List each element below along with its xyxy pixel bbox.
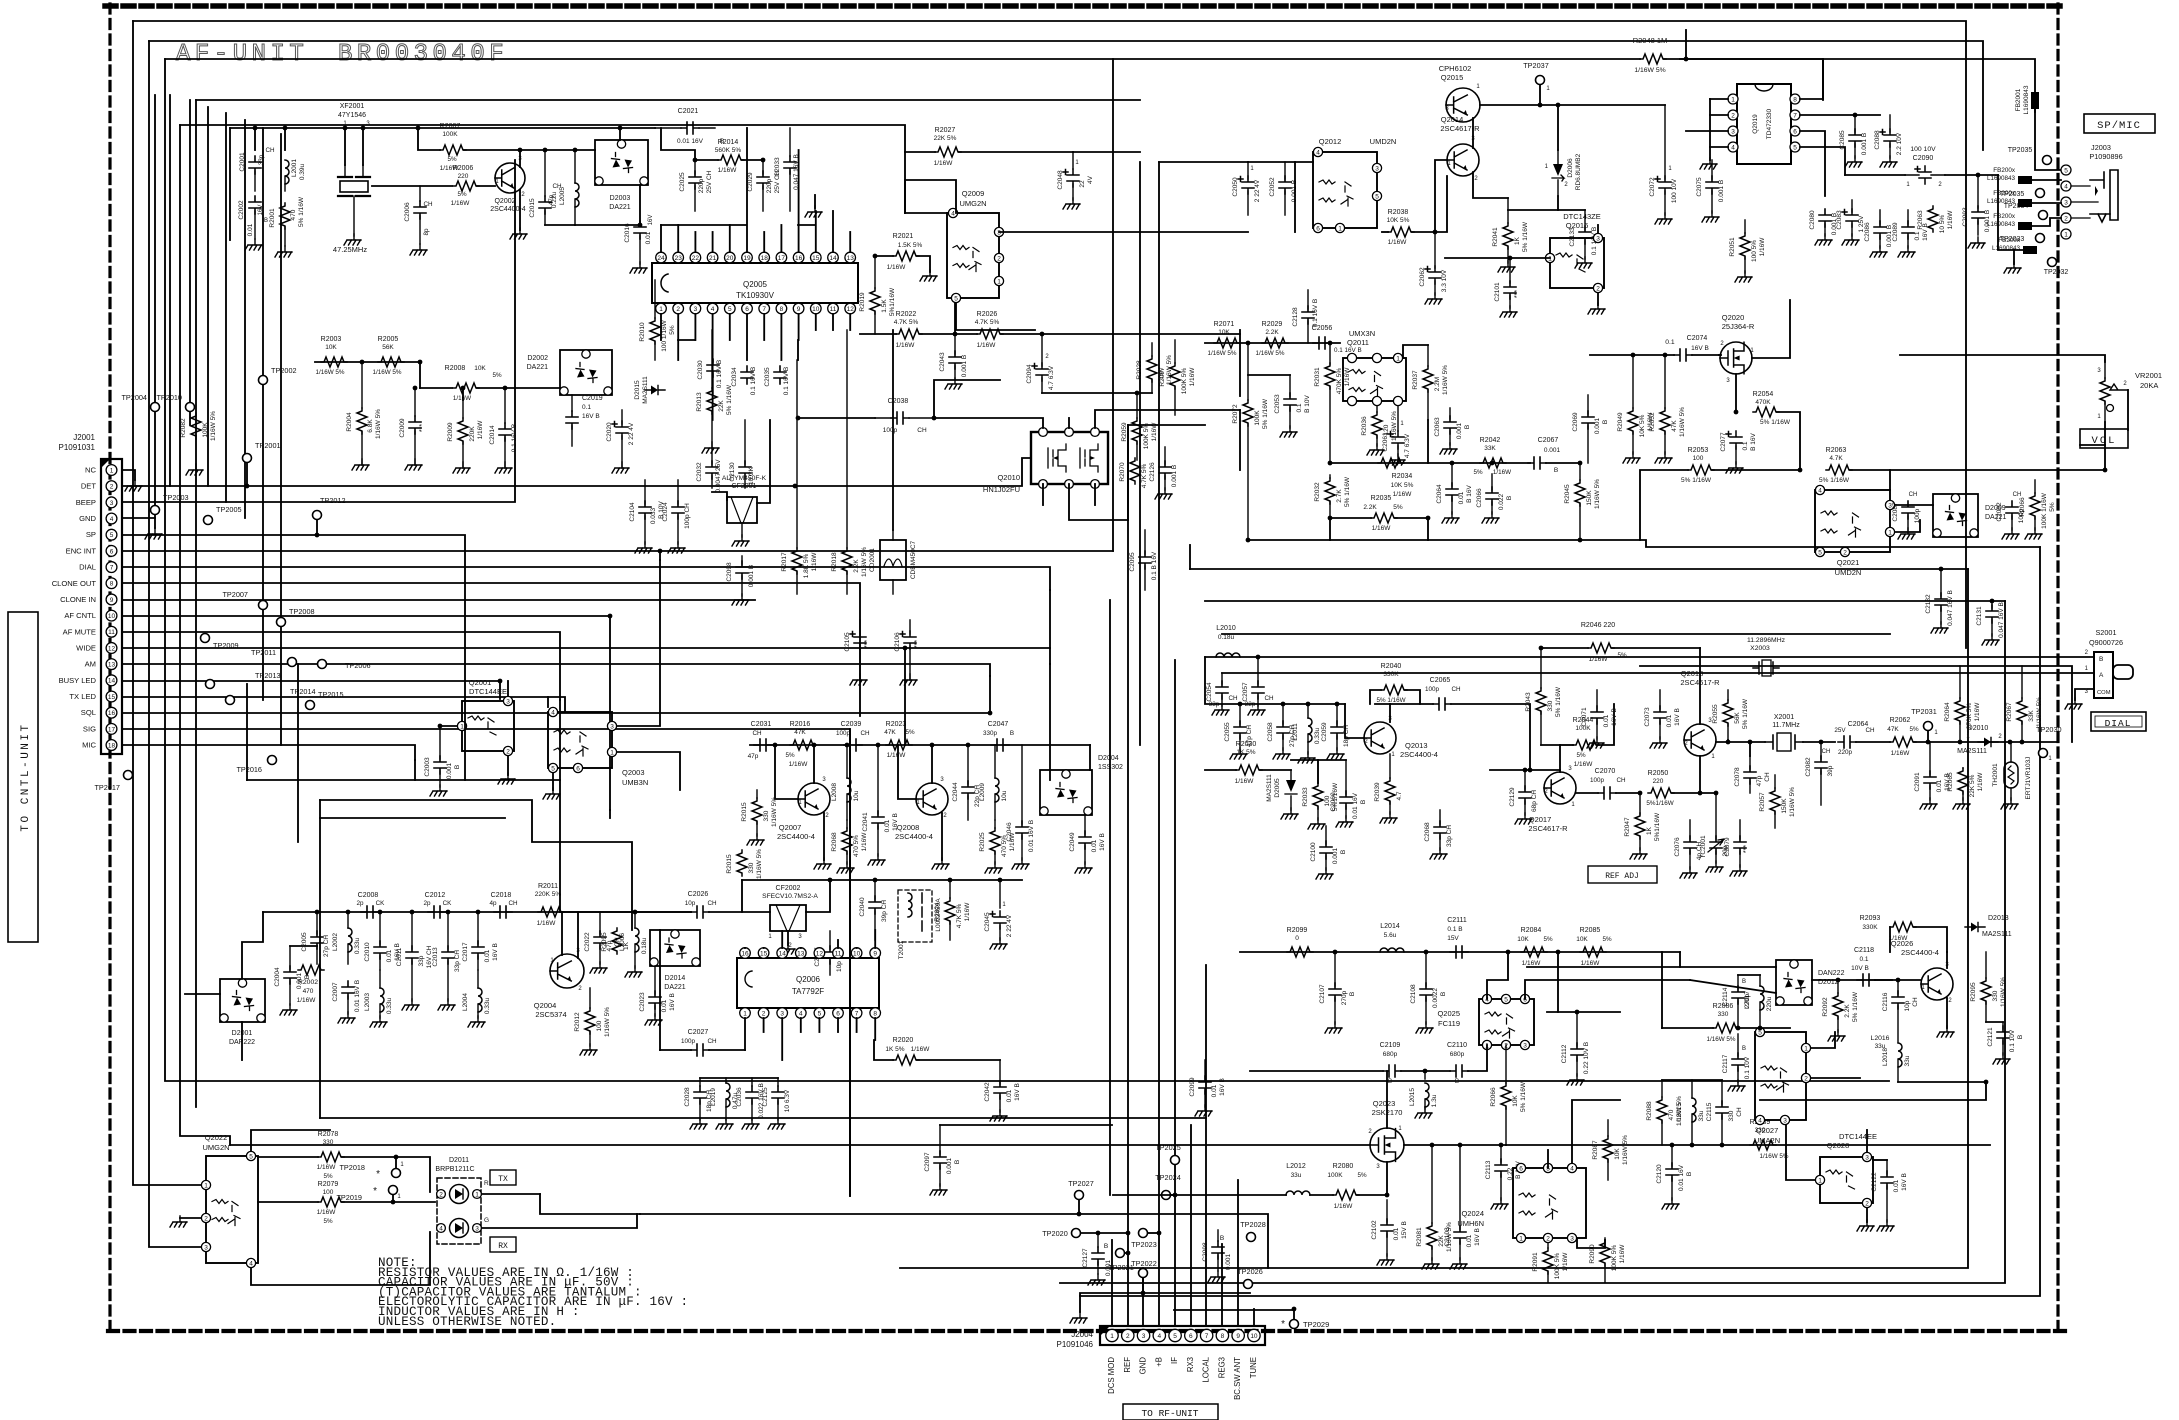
svg-text:0.047 16V B: 0.047 16V B bbox=[1998, 602, 2005, 638]
svg-text:1: 1 bbox=[659, 306, 663, 313]
svg-text:Q2001: Q2001 bbox=[469, 678, 492, 687]
resistor R2036 120 1/16W 5% bbox=[1361, 406, 1398, 455]
wire bbox=[241, 1022, 243, 1060]
capacitor C2009 bbox=[399, 388, 426, 470]
svg-text:R2030: R2030 bbox=[1236, 741, 1257, 748]
testpoint TP2001 bbox=[243, 441, 281, 463]
resistor R2082 100K 5% bbox=[180, 411, 217, 475]
svg-text:5%1/16W: 5%1/16W bbox=[1646, 800, 1673, 807]
svg-text:UMD2N: UMD2N bbox=[1370, 137, 1397, 146]
testpoint TP2031 bbox=[1911, 707, 1938, 736]
transistor Q2001 DTC144EE bbox=[457, 678, 514, 756]
svg-text:CH: CH bbox=[423, 201, 433, 208]
svg-text:1/16W: 1/16W bbox=[1393, 491, 1413, 498]
svg-text:5%: 5% bbox=[492, 372, 502, 379]
svg-text:6: 6 bbox=[1189, 1333, 1193, 1340]
svg-text:1: 1 bbox=[1110, 1333, 1114, 1340]
svg-text:R2017: R2017 bbox=[781, 552, 788, 572]
svg-text:5: 5 bbox=[728, 306, 732, 313]
svg-text:C2001: C2001 bbox=[239, 152, 246, 172]
svg-text:C2125: C2125 bbox=[762, 1087, 769, 1107]
svg-text:4.7K: 4.7K bbox=[1829, 455, 1843, 462]
label REF ADJ bbox=[1588, 866, 1657, 883]
wire bbox=[1189, 545, 1191, 569]
svg-text:4: 4 bbox=[711, 306, 715, 313]
svg-text:CH: CH bbox=[752, 730, 762, 737]
capacitor C2050 22 4V bbox=[1232, 162, 1261, 215]
svg-text:0.01: 0.01 bbox=[1091, 839, 1098, 852]
capacitor C2098 0.001 B bbox=[726, 556, 755, 605]
svg-text:D2004: D2004 bbox=[1098, 755, 1119, 762]
svg-text:Q2017: Q2017 bbox=[1529, 815, 1552, 824]
svg-text:1/16W: 1/16W bbox=[1344, 367, 1351, 387]
svg-text:R2025: R2025 bbox=[979, 832, 986, 852]
svg-text:100K 5%: 100K 5% bbox=[1611, 1245, 1618, 1272]
wire bbox=[482, 1214, 637, 1228]
capacitor C2109 680p B bbox=[1380, 1042, 1401, 1085]
wire bbox=[763, 314, 765, 340]
wire bbox=[1222, 672, 2094, 674]
resistor R2001 470 5% 1/16W bbox=[269, 196, 305, 257]
wire bbox=[956, 303, 1035, 330]
svg-text:9: 9 bbox=[1236, 1333, 1240, 1340]
svg-text:TP2022: TP2022 bbox=[1131, 1259, 1157, 1268]
svg-text:CH: CH bbox=[707, 1038, 717, 1045]
svg-text:R2095: R2095 bbox=[1970, 982, 1977, 1002]
svg-text:C2098: C2098 bbox=[726, 562, 733, 582]
svg-text:5% 1/16W: 5% 1/16W bbox=[1852, 991, 1859, 1022]
wire bbox=[1294, 162, 1296, 232]
wire bbox=[678, 339, 695, 341]
wire bbox=[229, 128, 231, 240]
wire bbox=[1389, 704, 1391, 722]
capacitor C2113 0.22 B 10V bbox=[1485, 1145, 1522, 1209]
svg-text:C2101: C2101 bbox=[1494, 282, 1501, 302]
connector J2004 P1091046 bbox=[1057, 1326, 1265, 1400]
wire bbox=[1221, 1244, 1223, 1326]
svg-text:C2064: C2064 bbox=[1436, 484, 1443, 504]
svg-text:470: 470 bbox=[1668, 1109, 1675, 1120]
svg-text:13: 13 bbox=[797, 950, 805, 957]
transistor array Q2003 UMB3N bbox=[548, 707, 648, 787]
wire bbox=[1390, 703, 1433, 705]
svg-text:C2015: C2015 bbox=[529, 198, 536, 218]
svg-text:C2108: C2108 bbox=[1410, 984, 1417, 1004]
svg-text:L1690843: L1690843 bbox=[2023, 85, 2030, 114]
svg-text:2: 2 bbox=[1843, 549, 1847, 556]
svg-text:1/16W: 1/16W bbox=[451, 200, 471, 207]
wire bbox=[1330, 462, 1530, 464]
svg-text:R2047: R2047 bbox=[1624, 817, 1631, 837]
svg-text:4.7K 5%: 4.7K 5% bbox=[956, 903, 963, 928]
svg-text:100K: 100K bbox=[1254, 410, 1261, 426]
svg-text:560K 5%: 560K 5% bbox=[715, 147, 742, 154]
wire bbox=[420, 387, 452, 389]
svg-text:220: 220 bbox=[1653, 778, 1664, 785]
svg-text:C2012: C2012 bbox=[425, 892, 446, 899]
svg-text:RD6.8UMB2: RD6.8UMB2 bbox=[1575, 153, 1582, 190]
svg-text:R2081: R2081 bbox=[1416, 1227, 1423, 1247]
svg-text:C2028: C2028 bbox=[684, 1087, 691, 1107]
diode D2009 DA221 bbox=[1933, 494, 2007, 537]
capacitor C2118 0.1 10V B bbox=[1851, 947, 1875, 986]
svg-text:TP2026: TP2026 bbox=[1237, 1267, 1263, 1276]
svg-text:C2112: C2112 bbox=[1561, 1044, 1568, 1063]
wire bbox=[815, 211, 817, 252]
ferrite bead FB200x L1690843 bbox=[1987, 190, 2032, 207]
capacitor C2129 68p CH bbox=[1509, 770, 1538, 824]
wire bbox=[284, 128, 286, 150]
wire bbox=[1403, 345, 1428, 358]
svg-text:B: B bbox=[1440, 992, 1447, 996]
wire bbox=[552, 773, 554, 790]
wire bbox=[2032, 202, 2061, 204]
capacitor C2107 270p B bbox=[1319, 952, 1356, 1033]
svg-text:C2091: C2091 bbox=[1914, 772, 1921, 792]
svg-text:2: 2 bbox=[1865, 1200, 1869, 1207]
svg-text:C2109: C2109 bbox=[1380, 1042, 1401, 1049]
svg-text:***: *** bbox=[1743, 845, 1750, 853]
svg-text:6.8K: 6.8K bbox=[367, 419, 374, 433]
svg-text:470K 5%: 470K 5% bbox=[1336, 368, 1343, 395]
svg-text:DIAL: DIAL bbox=[79, 563, 96, 572]
resistor R2002 470 1/16W bbox=[297, 965, 324, 1004]
resistor R2089 330 1/16W 5% bbox=[1750, 1119, 1789, 1160]
diode D2002 DA221 bbox=[527, 350, 613, 395]
capacitor C2041 0.01 16V B bbox=[862, 745, 899, 865]
wire bbox=[122, 647, 905, 649]
svg-text:C2090: C2090 bbox=[1913, 155, 1934, 162]
ground bbox=[543, 788, 560, 799]
connector J2003 P1090896 bbox=[2061, 143, 2123, 239]
capacitor C2120 0.01 16V B bbox=[1656, 1145, 1693, 1209]
resistor R2038 10K 5% 1/16W bbox=[1387, 209, 1414, 246]
wire bbox=[744, 1018, 746, 1050]
svg-text:FB200x: FB200x bbox=[1993, 213, 2016, 220]
wire bbox=[462, 388, 464, 400]
svg-text:2: 2 bbox=[1596, 285, 1600, 292]
svg-text:16V B: 16V B bbox=[1691, 345, 1709, 352]
svg-text:C2071: C2071 bbox=[1581, 707, 1588, 727]
svg-text:C2066: C2066 bbox=[1476, 488, 1483, 508]
svg-text:B: B bbox=[1554, 467, 1558, 474]
wire bbox=[319, 800, 321, 1118]
svg-text:C2107: C2107 bbox=[1319, 984, 1326, 1004]
wire bbox=[1042, 392, 1152, 394]
svg-text:R2082: R2082 bbox=[180, 418, 187, 438]
wire bbox=[746, 128, 748, 252]
svg-text:39p: 39p bbox=[1827, 765, 1834, 776]
wire bbox=[798, 314, 800, 340]
svg-text:0.001 B: 0.001 B bbox=[1861, 133, 1868, 155]
resistor R2015b 330 bbox=[726, 849, 763, 879]
capacitor C2021 0.01 16V B bbox=[655, 108, 724, 145]
wire bbox=[547, 697, 549, 707]
wire bbox=[1472, 118, 1474, 148]
wire bbox=[781, 931, 783, 948]
IC Q2006 TA7792F bbox=[737, 948, 881, 1019]
svg-text:C2077: C2077 bbox=[1720, 432, 1727, 452]
wire bbox=[1898, 1081, 1986, 1083]
svg-text:0.01: 0.01 bbox=[386, 949, 393, 962]
svg-text:B: B bbox=[1349, 992, 1356, 996]
svg-text:L2002: L2002 bbox=[332, 933, 339, 951]
svg-text:220K: 220K bbox=[469, 426, 476, 442]
svg-text:L1690843: L1690843 bbox=[1992, 245, 2021, 252]
svg-text:33u: 33u bbox=[1698, 1110, 1705, 1121]
resistor R2039 4.7 bbox=[1374, 754, 1403, 823]
wire bbox=[344, 128, 346, 165]
wire bbox=[806, 880, 830, 912]
svg-text:5% 1/16W: 5% 1/16W bbox=[1760, 419, 1791, 426]
svg-text:Q2028: Q2028 bbox=[1827, 1141, 1850, 1150]
resistor R2017 1.8K 5% 1/16W bbox=[781, 360, 818, 594]
transistor Q2016 DTC143ZE bbox=[1545, 212, 1604, 293]
svg-text:1: 1 bbox=[1818, 1177, 1822, 1184]
wire bbox=[1612, 647, 1700, 649]
svg-text:C2131: C2131 bbox=[1976, 606, 1983, 626]
svg-text:TP2010: TP2010 bbox=[156, 393, 182, 402]
svg-text:0.001: 0.001 bbox=[446, 762, 453, 779]
svg-text:10K: 10K bbox=[1218, 329, 1230, 336]
svg-text:UNLESS OTHERWISE NOTED.: UNLESS OTHERWISE NOTED. bbox=[378, 1315, 556, 1329]
svg-text:10 6.3V: 10 6.3V bbox=[784, 1089, 791, 1112]
wire bbox=[122, 632, 560, 700]
resistor R2078 330 1/16W 5% bbox=[317, 1131, 344, 1180]
svg-text:0.39u: 0.39u bbox=[299, 163, 306, 180]
svg-text:47p: 47p bbox=[1756, 775, 1763, 786]
svg-text:2.2K: 2.2K bbox=[1265, 329, 1279, 336]
wire bbox=[660, 1049, 691, 1051]
wire bbox=[559, 700, 561, 912]
svg-text:4.7K 5%: 4.7K 5% bbox=[975, 319, 1000, 326]
wire bbox=[320, 800, 632, 930]
wire bbox=[1190, 568, 1968, 570]
wire bbox=[1404, 1144, 1506, 1146]
wire bbox=[763, 232, 765, 252]
svg-text:18p CH: 18p CH bbox=[1343, 725, 1350, 747]
svg-text:0.01: 0.01 bbox=[1466, 1234, 1473, 1247]
svg-text:A: A bbox=[2099, 672, 2104, 679]
svg-text:TX LED: TX LED bbox=[69, 692, 96, 701]
svg-text:B: B bbox=[454, 765, 461, 769]
svg-text:C2023: C2023 bbox=[639, 992, 646, 1012]
svg-text:Q2008: Q2008 bbox=[897, 823, 920, 832]
resistor R2013 22K 5% 1/16W bbox=[696, 330, 733, 453]
svg-text:R2079: R2079 bbox=[318, 1181, 339, 1188]
wire bbox=[122, 535, 465, 701]
svg-text:P1091046: P1091046 bbox=[1057, 1340, 1094, 1349]
inductor L2012 33u bbox=[1286, 1163, 1310, 1195]
capacitor C2030 0.1 16V B bbox=[697, 359, 723, 394]
wire bbox=[1690, 980, 1776, 993]
svg-text:100p: 100p bbox=[1590, 777, 1605, 784]
svg-text:1/16W: 1/16W bbox=[1574, 761, 1594, 768]
svg-text:47.25MHz: 47.25MHz bbox=[333, 245, 367, 254]
capacitor C2097 0.001 B bbox=[924, 1125, 961, 1195]
svg-text:8: 8 bbox=[1793, 96, 1797, 103]
svg-text:R2095: R2095 bbox=[601, 932, 608, 952]
svg-text:TA7792F: TA7792F bbox=[792, 987, 824, 996]
svg-text:CLONE IN: CLONE IN bbox=[60, 595, 96, 604]
svg-text:23: 23 bbox=[675, 255, 683, 262]
wire bbox=[920, 333, 977, 335]
testpoint TP2016 bbox=[236, 756, 276, 775]
resistor R2033 100 5% 1/16W bbox=[1302, 760, 1339, 829]
wire bbox=[507, 756, 509, 775]
svg-text:8p: 8p bbox=[423, 228, 430, 236]
svg-text:56K: 56K bbox=[1734, 712, 1741, 724]
wire bbox=[742, 879, 1022, 881]
svg-text:0.01: 0.01 bbox=[484, 949, 491, 962]
svg-text:MA2S111: MA2S111 bbox=[1266, 774, 1273, 802]
wire bbox=[1662, 1027, 1713, 1029]
svg-text:L2005: L2005 bbox=[559, 187, 566, 205]
transistor Q2026 2SC4400-4 bbox=[1891, 939, 1953, 1004]
svg-text:R2032: R2032 bbox=[1314, 482, 1321, 502]
svg-text:16V B: 16V B bbox=[1611, 708, 1618, 726]
wire bbox=[1310, 1194, 1333, 1196]
svg-text:330: 330 bbox=[1547, 700, 1554, 711]
capacitor C2001 33p CH bbox=[239, 147, 275, 191]
svg-text:1/16W: 1/16W bbox=[1891, 750, 1911, 757]
svg-text:0.001 B: 0.001 B bbox=[961, 355, 968, 377]
svg-text:AM: AM bbox=[85, 660, 96, 669]
diode D2005 MA2S111 bbox=[1266, 770, 1298, 819]
resistor R2040 330K 5% 1/16W bbox=[1376, 663, 1407, 704]
wire bbox=[941, 813, 943, 860]
diode D2004 1SS302 bbox=[1040, 755, 1123, 815]
wire bbox=[712, 232, 714, 252]
capacitor C2049 0.01 16V B bbox=[1069, 815, 1106, 873]
wire bbox=[189, 100, 191, 425]
svg-text:C2052: C2052 bbox=[1269, 177, 1276, 197]
svg-text:SQL: SQL bbox=[81, 708, 96, 717]
capacitor C2031 47p CH bbox=[748, 721, 772, 760]
wire bbox=[892, 330, 894, 530]
svg-text:7: 7 bbox=[855, 1010, 859, 1017]
wire bbox=[1800, 131, 1825, 196]
resistor R2034 10K 5% 1/16W bbox=[1378, 458, 1414, 498]
wire bbox=[1685, 30, 1687, 59]
svg-text:R2048 1M: R2048 1M bbox=[1633, 36, 1668, 45]
wire bbox=[905, 212, 947, 214]
svg-text:R2072: R2072 bbox=[1232, 404, 1239, 424]
svg-text:C2053: C2053 bbox=[1274, 394, 1281, 414]
wire bbox=[1672, 792, 1716, 794]
thermistor TH2001 ERTJ1VR103J bbox=[1992, 742, 2032, 809]
svg-text:C2014: C2014 bbox=[489, 425, 496, 445]
wire bbox=[1558, 209, 1585, 211]
wire bbox=[1205, 656, 2094, 658]
svg-text:L1690843: L1690843 bbox=[1987, 175, 2016, 182]
svg-text:0.1 16V B: 0.1 16V B bbox=[1312, 299, 1319, 328]
label DIAL bbox=[2091, 712, 2146, 731]
capacitor C2008 2p CK bbox=[356, 892, 385, 918]
svg-text:0.033: 0.033 bbox=[650, 507, 657, 524]
svg-text:5%1/16W: 5%1/16W bbox=[1654, 812, 1661, 841]
svg-text:3: 3 bbox=[506, 698, 510, 705]
svg-text:R2038: R2038 bbox=[1388, 209, 1409, 216]
wire bbox=[1686, 130, 1710, 132]
wire bbox=[1749, 742, 1751, 756]
svg-text:330: 330 bbox=[1728, 1110, 1735, 1121]
svg-text:C2067: C2067 bbox=[1538, 437, 1559, 444]
svg-text:22K 5%: 22K 5% bbox=[934, 135, 957, 142]
svg-text:5%: 5% bbox=[1576, 752, 1586, 759]
ground bbox=[1588, 303, 1605, 314]
svg-text:SFECV10.7MS2-A: SFECV10.7MS2-A bbox=[762, 893, 818, 900]
capacitor C2068 33p CH bbox=[1424, 810, 1453, 859]
svg-text:1/16W: 1/16W bbox=[1589, 656, 1609, 663]
capacitor C2065 100p CH bbox=[1425, 677, 1461, 710]
svg-text:Q2004: Q2004 bbox=[534, 1001, 557, 1010]
svg-text:1: 1 bbox=[2064, 231, 2068, 238]
svg-text:2.7K: 2.7K bbox=[1336, 489, 1343, 503]
svg-text:0.1: 0.1 bbox=[1859, 956, 1868, 963]
wire bbox=[1127, 425, 1129, 520]
svg-text:LOCAL: LOCAL bbox=[1202, 1356, 1211, 1382]
resistor R2070 4.7K 5% bbox=[1119, 458, 1148, 488]
svg-text:25J364-R: 25J364-R bbox=[1722, 322, 1755, 331]
wire bbox=[1060, 601, 2005, 1283]
svg-text:330K: 330K bbox=[1862, 924, 1878, 931]
wire bbox=[2080, 422, 2105, 445]
svg-text:100p: 100p bbox=[1425, 686, 1440, 693]
svg-text:R2033: R2033 bbox=[1302, 787, 1309, 807]
resistor R2090 100K 5% 1/16W bbox=[1589, 1238, 1626, 1282]
svg-text:R2029: R2029 bbox=[1262, 321, 1283, 328]
svg-text:0.01 16V: 0.01 16V bbox=[1352, 792, 1359, 819]
wire bbox=[1080, 1278, 1143, 1312]
diode D2001 DAP222 bbox=[220, 979, 265, 1046]
testpoint TP2026 bbox=[1237, 1267, 1263, 1289]
svg-text:B: B bbox=[1388, 1078, 1392, 1085]
wire bbox=[1250, 1070, 1383, 1072]
wire bbox=[1895, 504, 1933, 506]
svg-text:TUNE: TUNE bbox=[1249, 1357, 1258, 1378]
transformer T2001 L0022459A bbox=[898, 890, 942, 959]
svg-text:C2116: C2116 bbox=[1882, 992, 1889, 1011]
testpoint TP2020 bbox=[1042, 1229, 1080, 1239]
resistor R2097 100K 5% 1/16W bbox=[1159, 340, 1196, 415]
svg-text:DTC144EE: DTC144EE bbox=[1839, 1132, 1877, 1141]
svg-text:5%: 5% bbox=[323, 1173, 333, 1180]
wire bbox=[800, 947, 802, 949]
svg-text:TK10930V: TK10930V bbox=[736, 291, 774, 300]
wire bbox=[1073, 151, 1140, 153]
svg-text:4.7K 5%: 4.7K 5% bbox=[1141, 463, 1148, 488]
wire bbox=[1357, 1194, 1387, 1196]
svg-text:C2008: C2008 bbox=[358, 892, 379, 899]
svg-text:100: 100 bbox=[1693, 455, 1704, 462]
svg-text:2 22 4V: 2 22 4V bbox=[628, 422, 635, 445]
svg-text:CDBM450C7: CDBM450C7 bbox=[910, 540, 917, 579]
testpoint TP2006 bbox=[318, 660, 371, 671]
svg-text:16: 16 bbox=[108, 710, 116, 717]
svg-text:5% 1/16W: 5% 1/16W bbox=[1555, 686, 1562, 717]
svg-text:5%: 5% bbox=[2049, 502, 2056, 512]
wire bbox=[180, 125, 905, 213]
svg-text:1: 1 bbox=[204, 1182, 208, 1189]
svg-text:1: 1 bbox=[1888, 529, 1892, 536]
svg-text:5% 1/16W: 5% 1/16W bbox=[1742, 698, 1749, 729]
svg-text:220p: 220p bbox=[1838, 749, 1853, 756]
svg-text:ENC INT: ENC INT bbox=[66, 546, 97, 555]
wire bbox=[122, 745, 415, 760]
svg-text:3: 3 bbox=[610, 723, 614, 730]
svg-text:2: 2 bbox=[506, 748, 510, 755]
